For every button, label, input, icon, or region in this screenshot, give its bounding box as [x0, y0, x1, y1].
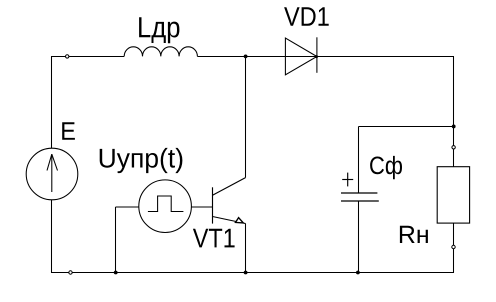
node: open circle bottom-left on rail	[69, 271, 72, 274]
junction: pulse source leg on rail	[114, 271, 118, 275]
diode VD1	[285, 37, 318, 75]
wire: right branch lower vertical	[453, 249, 455, 273]
wire: Rн top lead	[453, 149, 455, 167]
junction: collector node on top rail	[244, 55, 248, 59]
wire: capacitor top lead	[358, 127, 360, 194]
wire: pulse source down lead	[115, 207, 117, 273]
wire: left vertical (E top lead)	[51, 57, 53, 149]
wire: right branch upper vertical	[453, 57, 455, 147]
label Uупр(t)	[100, 148, 183, 173]
label VD1	[284, 7, 329, 26]
wire: E bottom lead	[51, 200, 53, 273]
wire: capacitor bottom lead	[358, 201, 360, 273]
junction: emitter on bottom rail	[244, 271, 248, 275]
label Rн	[400, 226, 428, 243]
label VT1	[193, 229, 235, 248]
node: open circle below Rн	[452, 245, 455, 248]
wire: emitter vertical	[245, 224, 247, 273]
wire: pulse source left lead	[116, 206, 139, 208]
voltage source E	[26, 148, 78, 200]
polarity mark +	[342, 173, 353, 187]
wire: capacitor tap horizontal	[359, 126, 455, 128]
pulse source Uупр	[139, 180, 192, 233]
inductor Lдр	[124, 47, 197, 57]
node: open circle on top rail	[66, 55, 69, 58]
wire: Rн bottom lead	[453, 223, 455, 245]
wire: base lead	[191, 206, 212, 208]
wire: top rail middle and right segment	[197, 56, 454, 58]
capacitor Сф	[341, 193, 379, 201]
wire: collector vertical	[245, 57, 247, 178]
transistor VT1	[213, 178, 246, 224]
junction: capacitor leg on bottom rail	[356, 271, 360, 275]
node: open circle above Rн	[452, 146, 455, 149]
label Сф	[370, 156, 402, 179]
label E	[62, 122, 75, 140]
label Lдр	[139, 17, 179, 43]
wire: bottom rail	[51, 272, 454, 274]
wire: top rail left segment	[51, 56, 124, 58]
resistor Rн	[437, 167, 469, 223]
junction: capacitor tap node	[452, 125, 456, 129]
